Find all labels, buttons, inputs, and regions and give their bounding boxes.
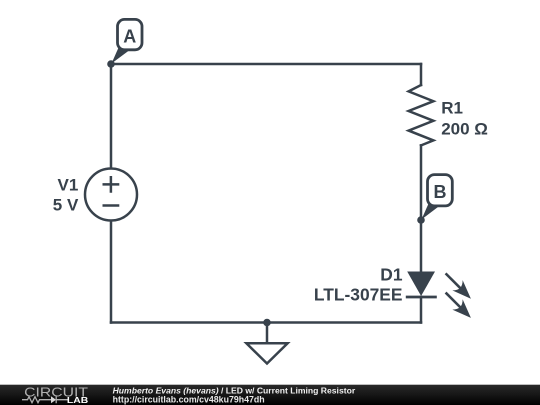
LED light arrow 1 [440, 268, 476, 304]
node A dot [107, 60, 115, 68]
wire resistor to LED (through node B) [420, 145, 423, 272]
svg-text:LTL-307EE: LTL-307EE [314, 284, 403, 304]
voltage source V1 circle [85, 169, 137, 221]
svg-text:V1: V1 [58, 175, 79, 194]
junction dot at ground [263, 319, 271, 327]
svg-text:LAB: LAB [67, 395, 88, 405]
svg-text:http://circuitlab.com/cv48ku79: http://circuitlab.com/cv48ku79h47dh [113, 395, 265, 405]
svg-text:5 V: 5 V [53, 196, 79, 215]
LED light arrow 2 [440, 287, 476, 323]
svg-text:B: B [434, 182, 447, 202]
V1 plus sign [103, 176, 120, 193]
wire below LED bar [420, 297, 423, 323]
wire right upper segment [420, 64, 423, 85]
svg-text:200 Ω: 200 Ω [441, 119, 488, 138]
svg-text:A: A [123, 26, 136, 46]
node B dot [417, 216, 425, 224]
logo zigzag resistor glyph [22, 397, 51, 403]
wire top (node A to top-right corner) [111, 63, 421, 66]
wire left lower (V1 to bottom) [110, 221, 113, 323]
logo diode glyph [51, 396, 56, 403]
node B flag box [428, 175, 453, 206]
ground triangle [246, 343, 287, 363]
resistor R1 [409, 85, 434, 145]
ground stem [266, 323, 269, 344]
footer bar [0, 385, 540, 405]
node B flag tail [422, 203, 440, 220]
svg-text:D1: D1 [380, 265, 403, 285]
V1 minus sign [103, 204, 120, 207]
node A flag box [118, 19, 143, 49]
node A flag tail [112, 47, 131, 64]
wire bottom [111, 321, 421, 324]
svg-text:R1: R1 [441, 99, 463, 118]
LED D1 triangle [407, 272, 435, 297]
wire left upper (node A to V1) [110, 64, 113, 169]
LED D1 cathode bar [406, 296, 437, 299]
